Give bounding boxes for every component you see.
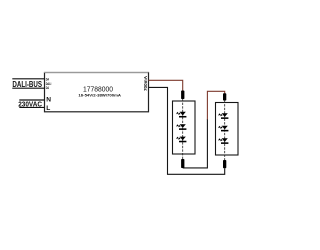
wire red + output driver to module 1 <box>149 80 183 91</box>
LED D2 <box>176 124 186 130</box>
connector pin module 2 top <box>223 93 226 100</box>
svg-text:N: N <box>46 97 51 104</box>
node DALI-BUS label rails <box>12 79 44 88</box>
LED D5 <box>218 126 228 132</box>
connector pin module 1 bottom <box>181 159 184 168</box>
LED D4 <box>218 113 228 119</box>
node 230VAC label rails <box>19 100 44 107</box>
LED D3 <box>176 137 186 143</box>
connector pin module 1 top <box>181 91 184 100</box>
wire dashed conductor module 2 <box>224 101 226 161</box>
svg-text:230VAC: 230VAC <box>18 102 42 109</box>
svg-text:DALI-BUS: DALI-BUS <box>12 80 42 89</box>
svg-text:L: L <box>46 105 50 112</box>
LED module 2 box <box>216 103 239 156</box>
LED D1 <box>176 112 186 118</box>
svg-text:16-54V/2-38W/700mA: 16-54V/2-38W/700mA <box>78 94 121 98</box>
driver converter box 17788000 <box>44 73 149 112</box>
wire series link module1 bottom to module2 top (black part) <box>183 119 208 168</box>
svg-text:17788000: 17788000 <box>83 84 113 93</box>
wire black - return driver to bottom rail <box>149 87 225 174</box>
svg-text:700mA: 700mA <box>143 75 148 91</box>
LED module 1 box <box>173 101 196 154</box>
wire dashed conductor module 1 <box>182 99 184 159</box>
svg-text:DA: DA <box>46 85 49 90</box>
wire series link (red part) <box>207 91 224 119</box>
LED D6 <box>218 138 228 144</box>
connector pin module 2 bottom <box>223 160 226 168</box>
